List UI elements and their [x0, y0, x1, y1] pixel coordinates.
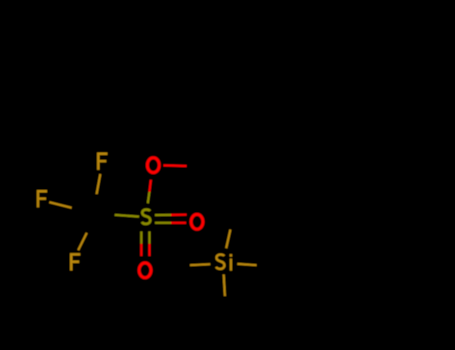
- atom label S sulfur: [142, 210, 150, 224]
- atom label O down sulfonyl oxygen: [139, 263, 151, 278]
- bond C-F2 (carbon half, black): [72, 208, 95, 214]
- bond Si-CH3 down (carbon half, black): [225, 296, 226, 318]
- bond Si-CH3 left (gold half near Si): [190, 264, 210, 265]
- atom label O right sulfonyl oxygen: [191, 214, 203, 229]
- atom label O ester oxygen: [147, 158, 159, 173]
- bond C-S (carbon half, black): [95, 214, 115, 215]
- atom label Si silicon: i dot: [230, 254, 233, 257]
- bond O-C1 ring (red half near O): [164, 164, 187, 167]
- bond Si-C2 ring (gold half near Si): [226, 230, 230, 249]
- bond Si-CH3 right (gold half near Si): [237, 264, 256, 265]
- naphthalene ring (carbon skeleton, drawn black on black): [210, 124, 386, 256]
- atom label F1 (top fluorine): [97, 153, 107, 170]
- atom label F3 (bottom fluorine): [70, 254, 80, 271]
- bond O-C1 ring (carbon half, black): [187, 165, 210, 168]
- bond Si-CH3 down (gold half near Si): [224, 275, 225, 297]
- atom label Si silicon: i stem: [230, 259, 232, 271]
- bond C-F1 (carbon half, black): [93, 194, 96, 215]
- bond C-F1 (CF3 carbon to top F, gold half): [97, 174, 101, 194]
- bond C-S (olive half near S): [115, 215, 139, 217]
- bond C-F2 (CF3 carbon to left F, gold half): [49, 202, 71, 208]
- bond S-O ester (red half near O): [149, 180, 151, 192]
- double bond S=O down, left line (olive then red): [140, 232, 142, 244]
- bond Si-C2 ring (carbon half, black): [230, 210, 234, 229]
- double bond S=O right, upper line (olive then red): [155, 214, 171, 216]
- double bond S=O down, right line (olive then red): [148, 232, 150, 244]
- bond Si-CH3 left (carbon half, black): [170, 265, 191, 266]
- bond C-F3 (carbon half, black): [87, 215, 96, 232]
- atom label Si silicon: S part: [216, 255, 224, 269]
- double bond S=O right, lower line (olive then red): [155, 222, 171, 224]
- atom label F2 (left fluorine): [37, 190, 47, 207]
- bond C-F3 (CF3 carbon to bottom F, gold half): [78, 233, 87, 250]
- bond S-O ester (olive half near S): [148, 192, 150, 203]
- bond Si-CH3 right (carbon half, black): [257, 265, 276, 266]
